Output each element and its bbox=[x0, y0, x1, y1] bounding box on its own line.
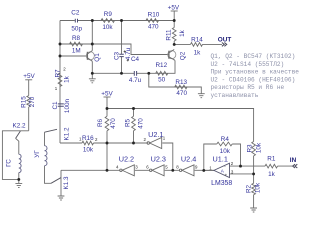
svg-text:U1.1: U1.1 bbox=[212, 154, 227, 163]
svg-text:R13: R13 bbox=[175, 79, 187, 86]
svg-text:3: 3 bbox=[135, 164, 138, 169]
wire +5V stem top bbox=[173, 11, 175, 21]
svg-text:U2.1: U2.1 bbox=[148, 130, 163, 139]
resistor R1 1k bbox=[265, 156, 278, 178]
inverter U2.1 74LS14 (points left, output pin 2) bbox=[144, 130, 166, 149]
svg-text:U2.3: U2.3 bbox=[151, 155, 166, 164]
svg-text:R10: R10 bbox=[148, 12, 160, 19]
wire left column x=60 bbox=[59, 21, 61, 144]
svg-text:2: 2 bbox=[231, 161, 234, 166]
svg-text:ГС: ГС bbox=[6, 159, 13, 167]
svg-text:резисторы R5 и R6 не: резисторы R5 и R6 не bbox=[211, 84, 285, 91]
svg-text:1k: 1k bbox=[268, 171, 276, 178]
svg-text:U2 - 74LS14 (555ТЛ2): U2 - 74LS14 (555ТЛ2) bbox=[211, 61, 285, 68]
inverter U2.4 (output pin 8, input pin 9) bbox=[176, 155, 198, 176]
svg-text:R9: R9 bbox=[104, 11, 113, 18]
node: junction op-amp plus input / R2-R3 column bbox=[252, 172, 255, 175]
resistor R2 10k bbox=[245, 182, 261, 195]
svg-text:U2 - CD40106 (HEF40106): U2 - CD40106 (HEF40106) bbox=[211, 76, 296, 83]
svg-text:R5: R5 bbox=[124, 118, 131, 127]
svg-text:470: 470 bbox=[110, 118, 117, 129]
svg-text:1k: 1k bbox=[194, 49, 202, 56]
svg-text:При установке в качестве: При установке в качестве bbox=[211, 69, 300, 76]
resistor R4 10k bbox=[217, 136, 232, 155]
node: junction Q1 collector / R8 row bbox=[91, 43, 94, 46]
node: junction GS coil / loop bottom bbox=[17, 178, 20, 181]
resistor R13 470 bbox=[175, 79, 188, 97]
svg-text:50p: 50p bbox=[71, 26, 82, 33]
ground below K1.3 bbox=[58, 196, 65, 200]
svg-text:4: 4 bbox=[116, 165, 119, 170]
wire op-amp plus input row y=173.9 bbox=[230, 173, 254, 175]
wire feedback node row y=143 bbox=[60, 142, 148, 144]
wire R3-R2 column x=253.6 bbox=[253, 156, 255, 208]
svg-text:R1: R1 bbox=[267, 156, 276, 163]
svg-text:2: 2 bbox=[144, 137, 147, 142]
resistor R14 1k bbox=[191, 37, 204, 57]
svg-text:6: 6 bbox=[146, 165, 149, 170]
wire Q1 base y=56 bbox=[60, 55, 87, 57]
resistor R5 470 bbox=[124, 116, 144, 131]
wire R13 branch bbox=[149, 73, 202, 93]
svg-text:R3: R3 bbox=[246, 144, 253, 153]
node: junction op-amp output / R4 left column bbox=[202, 169, 205, 172]
svg-text:R11: R11 bbox=[166, 29, 173, 41]
svg-text:K2.2: K2.2 bbox=[12, 123, 26, 130]
wire Q1 collector/emitter column x=92.3 bbox=[91, 21, 93, 79]
svg-text:K1.3: K1.3 bbox=[63, 176, 70, 190]
svg-text:+: + bbox=[225, 172, 228, 177]
svg-text:+5V: +5V bbox=[101, 90, 113, 97]
wire +5V mid rail y=108.5 to R3 corner bbox=[107, 97, 254, 142]
svg-text:устанавливать: устанавливать bbox=[211, 92, 259, 99]
resistor R10 470 bbox=[146, 12, 160, 31]
resistor R7 1k bbox=[55, 67, 71, 91]
svg-text:R4: R4 bbox=[221, 136, 230, 143]
svg-text:R7: R7 bbox=[55, 69, 62, 78]
svg-text:U2.4: U2.4 bbox=[181, 155, 196, 164]
node: junction Q1 emitter / R12 row bbox=[91, 72, 94, 75]
node: junction +5V rail / R5 top bbox=[132, 107, 135, 110]
capacitor C2 50p bbox=[71, 9, 82, 32]
svg-text:+5V: +5V bbox=[23, 73, 35, 80]
capacitor C1 100n bbox=[52, 98, 71, 113]
wire GS coil stems bbox=[16, 138, 19, 183]
wire op-amp minus input / R1 row y=166.1 bbox=[230, 165, 294, 167]
svg-text:U2.2: U2.2 bbox=[119, 155, 134, 164]
contact K2.2 bbox=[12, 123, 26, 139]
wire top rail y=20.5 from C2 left corner to +5V node bbox=[60, 20, 174, 22]
ground below GS coil bbox=[15, 183, 22, 187]
node: junction C2-R9 node top rail bbox=[91, 19, 94, 22]
svg-text:+5V: +5V bbox=[168, 4, 180, 11]
wire K1.3 ground column x=61 bbox=[60, 170, 62, 196]
svg-text:Q1, Q2 - BC547 (КТ3102): Q1, Q2 - BC547 (КТ3102) bbox=[211, 53, 296, 60]
wire emitter/C4/R12 row y=73.3 bbox=[92, 60, 175, 73]
svg-text:270: 270 bbox=[29, 96, 36, 107]
node: junction R6 column / inverter chain row bbox=[106, 169, 109, 172]
svg-text:10k: 10k bbox=[255, 182, 262, 193]
svg-text:K1.2: K1.2 bbox=[63, 127, 70, 141]
IN connector bbox=[290, 157, 298, 168]
resistor R12 50 bbox=[155, 62, 167, 84]
inverter U2.2 (output pin 4, input pin 3) bbox=[116, 155, 138, 176]
node: junction R11 / R14 / Q2 collector bbox=[173, 43, 176, 46]
capacitor C4 4.7u polar bbox=[127, 56, 142, 84]
svg-text:2: 2 bbox=[63, 67, 66, 72]
svg-text:C4: C4 bbox=[131, 56, 140, 63]
svg-text:R2: R2 bbox=[245, 184, 252, 193]
transistor Q2 BC547 bbox=[168, 50, 187, 61]
svg-text:R15: R15 bbox=[20, 96, 27, 108]
node: junction R6 / feedback row bbox=[106, 142, 109, 145]
wire R11/R14 node and OUT lead y=44.4 bbox=[174, 21, 222, 45]
svg-text:2: 2 bbox=[95, 137, 98, 142]
wire R6 column x=107 bbox=[106, 109, 108, 171]
wire U2.1 input bend bbox=[162, 143, 173, 170]
svg-text:C3: C3 bbox=[113, 51, 120, 60]
capacitor C3 4.7u polar bbox=[113, 47, 131, 60]
resistor R9 10k bbox=[101, 11, 115, 31]
+5V symbol left (R15) bbox=[23, 73, 35, 80]
node: junction +5V rail / R6 top bbox=[106, 107, 109, 110]
wire R4 loop top y=144 bbox=[204, 144, 241, 170]
svg-text:1: 1 bbox=[55, 86, 58, 91]
wire C3 column x=121.5 bbox=[121, 21, 123, 74]
svg-text:R6: R6 bbox=[97, 118, 104, 127]
svg-text:4.7u: 4.7u bbox=[129, 77, 142, 84]
svg-text:10k: 10k bbox=[256, 142, 263, 153]
svg-text:470: 470 bbox=[138, 118, 145, 129]
svg-text:470: 470 bbox=[148, 23, 159, 30]
node: junction R12-R13 node bbox=[147, 72, 150, 75]
wire op-amp output bbox=[204, 169, 214, 171]
resistor R3 10k bbox=[246, 142, 262, 156]
svg-text:R12: R12 bbox=[155, 62, 167, 69]
resistor R6 470 bbox=[97, 116, 117, 131]
svg-text:C2: C2 bbox=[71, 9, 80, 16]
+5V symbol mid (R5 R6) bbox=[101, 90, 113, 97]
node: junction +5V / R10-R11 top rail bbox=[173, 19, 176, 22]
svg-text:1M: 1M bbox=[72, 48, 81, 55]
contact K1.3 bbox=[51, 176, 70, 190]
svg-text:5: 5 bbox=[165, 164, 168, 169]
ground below R2 bbox=[250, 208, 257, 212]
svg-text:1k: 1k bbox=[64, 75, 71, 83]
svg-text:УГ: УГ bbox=[34, 150, 41, 158]
node: junction C3 / C4 row bbox=[120, 72, 123, 75]
svg-text:IN: IN bbox=[290, 157, 297, 164]
svg-text:C1: C1 bbox=[52, 101, 59, 110]
wire R15 column x=28.7 bbox=[28, 80, 30, 131]
svg-text:R8: R8 bbox=[72, 35, 81, 42]
svg-text:R14: R14 bbox=[191, 37, 203, 44]
svg-text:Q1: Q1 bbox=[94, 53, 101, 62]
resistor R15 270 bbox=[20, 96, 36, 108]
contact K1.2 bbox=[45, 127, 71, 141]
svg-text:9: 9 bbox=[195, 164, 198, 169]
wire inverter chain row y=170.3 bbox=[61, 169, 214, 171]
wire quartz column x=44.5 bbox=[45, 132, 52, 183]
coil UG (quartz under test) bbox=[34, 146, 47, 166]
node: junction op-amp minus input / R4 right column bbox=[239, 165, 242, 168]
coil GS bbox=[6, 154, 22, 172]
svg-text:1k: 1k bbox=[179, 29, 186, 37]
wire R5 column x=133.5 bbox=[133, 109, 135, 144]
+5V symbol top (R11) bbox=[168, 4, 180, 11]
svg-text:8: 8 bbox=[176, 165, 179, 170]
svg-text:LM358: LM358 bbox=[211, 180, 232, 187]
resistor R16 10k bbox=[79, 135, 98, 153]
node: junction U2.3 out / U2.1 in column bbox=[171, 169, 174, 172]
node: junction left column / Q1 base row bbox=[59, 55, 62, 58]
svg-text:OUT: OUT bbox=[218, 37, 232, 44]
svg-text:50: 50 bbox=[158, 77, 166, 84]
svg-text:R16: R16 bbox=[82, 135, 94, 142]
ground below Q1 bbox=[89, 79, 96, 83]
node: junction C3 top rail bbox=[120, 19, 123, 22]
resistor R11 1k bbox=[166, 28, 186, 42]
svg-text:1: 1 bbox=[209, 165, 212, 170]
op-amp U1.1 LM358 bbox=[209, 154, 234, 187]
inverter U2.3 (output pin 6, input pin 5) bbox=[146, 155, 168, 176]
wire K2.2 loop bbox=[2, 131, 28, 180]
svg-text:100n: 100n bbox=[64, 98, 71, 113]
ground near R13 bbox=[198, 94, 205, 98]
OUT connector bbox=[218, 37, 232, 47]
wire R8 row y=44 with corner down to Q2 base row y=54.5 bbox=[60, 44, 169, 55]
node: junction R5 / feedback row bbox=[132, 142, 135, 145]
resistor R8 1M bbox=[70, 35, 83, 55]
svg-text:10k: 10k bbox=[102, 24, 113, 31]
node: junction left column / R8 row bbox=[59, 43, 62, 46]
svg-text:1: 1 bbox=[163, 136, 166, 141]
svg-text:Q2: Q2 bbox=[180, 51, 187, 60]
transistor Q1 BC547 bbox=[86, 51, 101, 62]
info note text block bbox=[211, 53, 300, 99]
svg-text:470: 470 bbox=[176, 90, 187, 97]
svg-text:10k: 10k bbox=[83, 146, 94, 153]
